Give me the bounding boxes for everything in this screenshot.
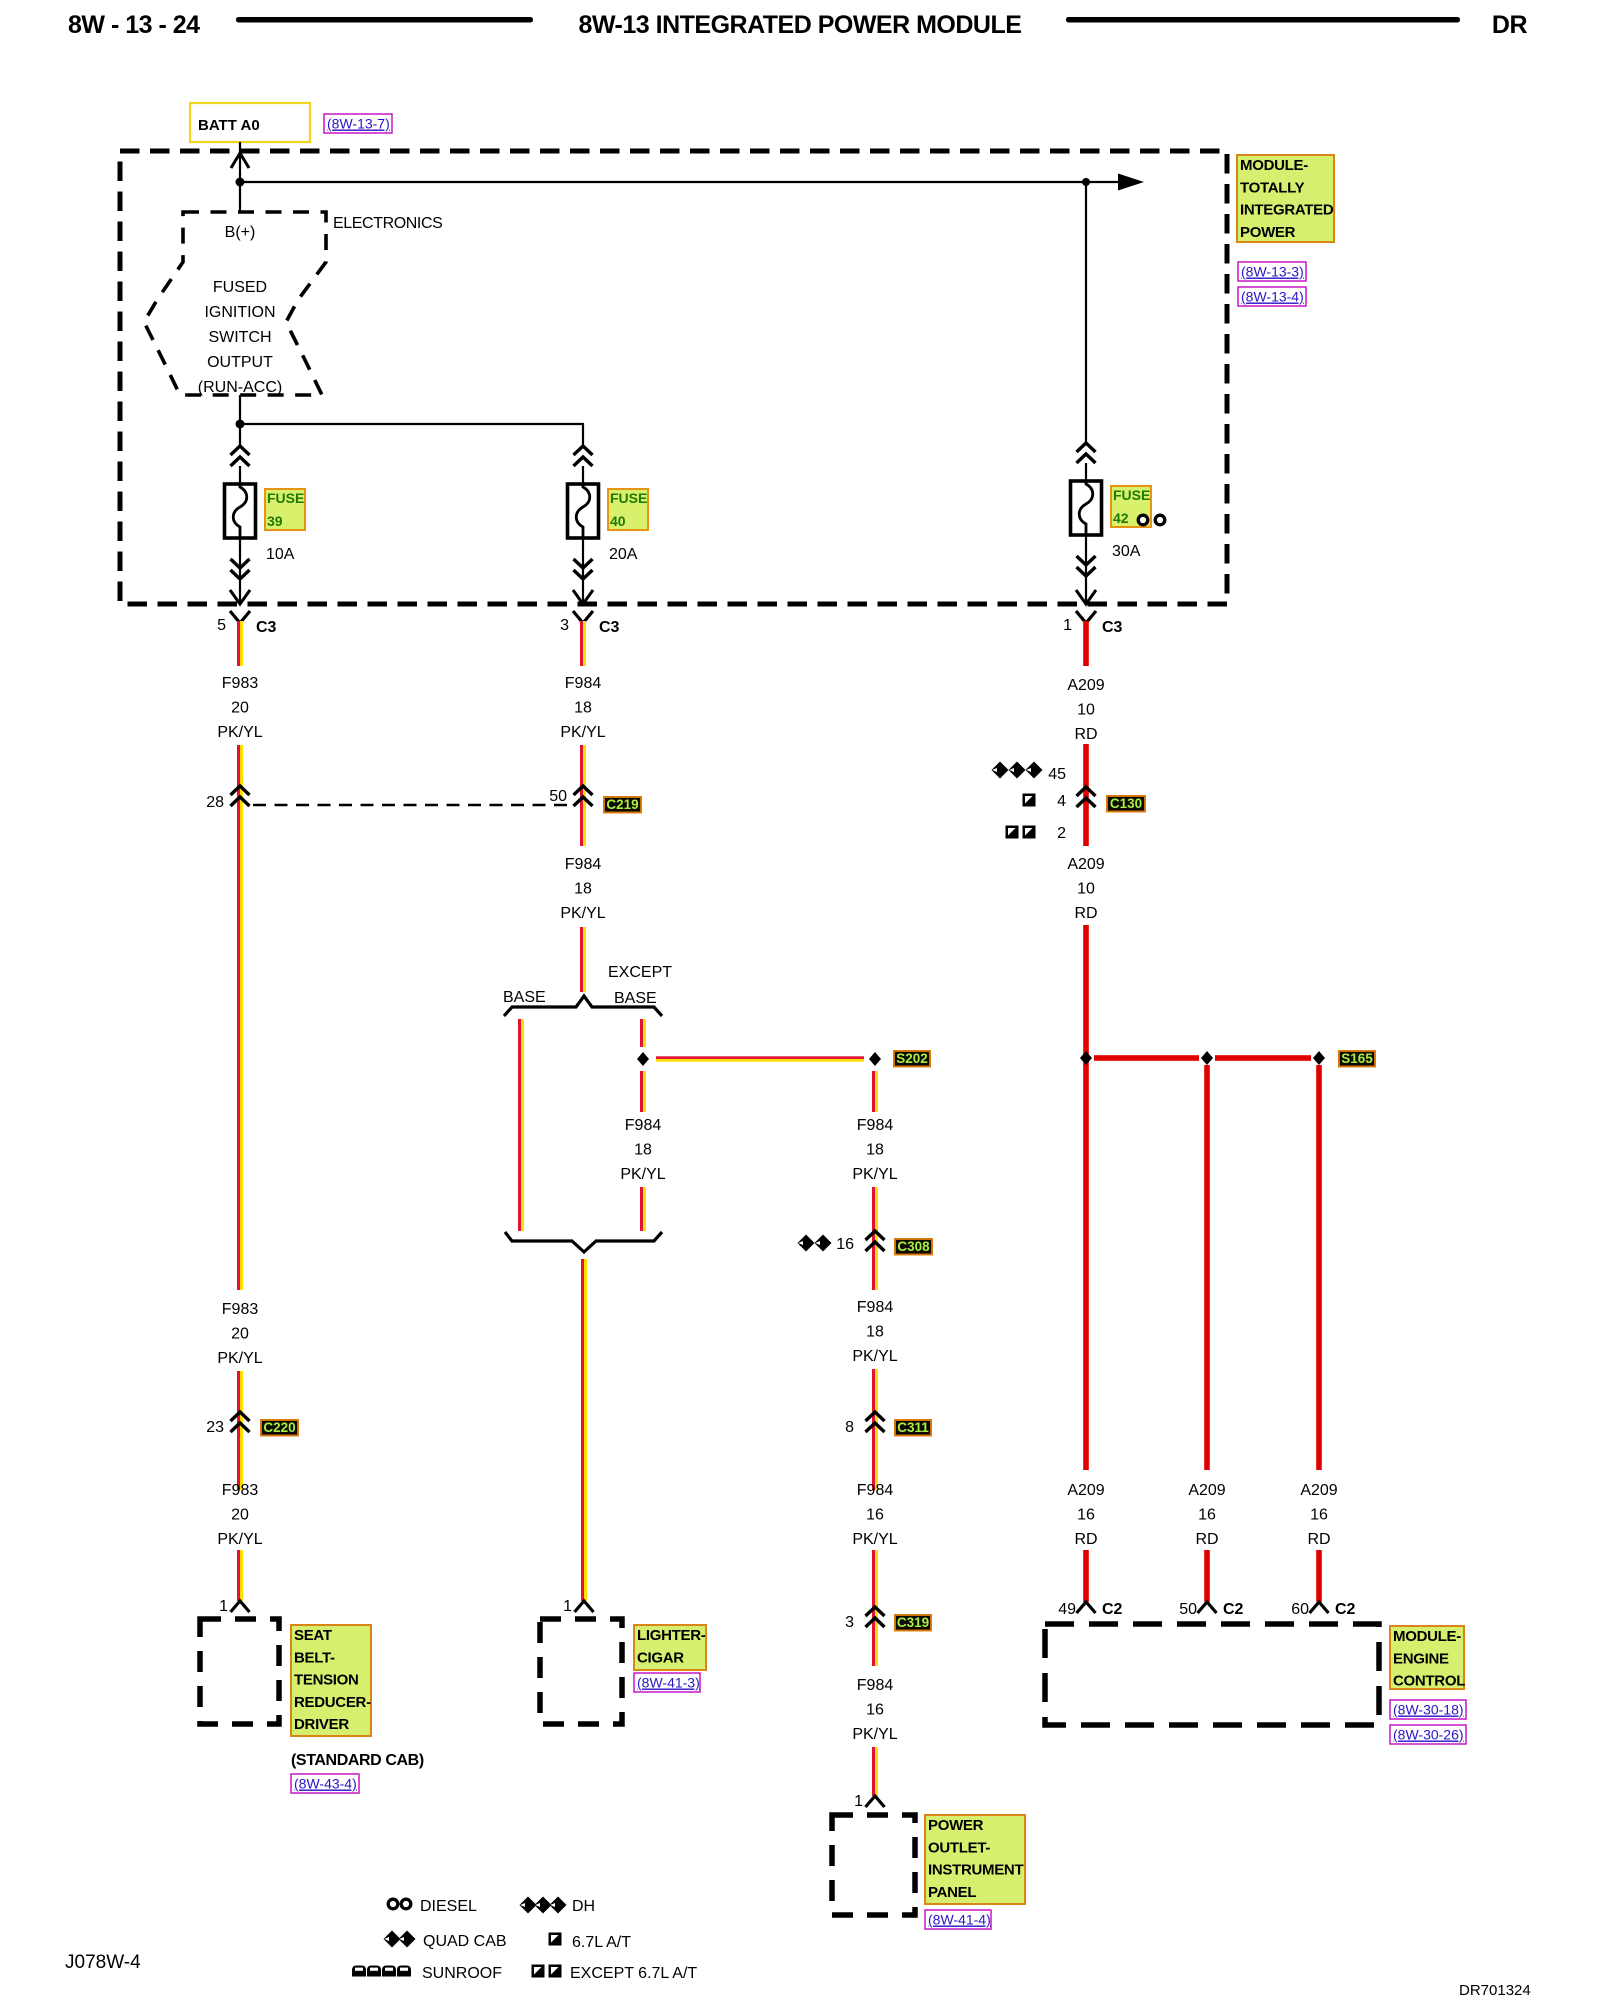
merge brace — [505, 1232, 662, 1252]
svg-text:50: 50 — [1179, 1601, 1197, 1618]
svg-text:PK/YL: PK/YL — [560, 724, 605, 741]
svg-text:8W - 13 - 24: 8W - 13 - 24 — [68, 11, 200, 39]
svg-text:INTEGRATED: INTEGRATED — [1240, 202, 1334, 219]
svg-text:F983: F983 — [222, 675, 259, 692]
svg-text:8: 8 — [845, 1419, 854, 1436]
wire to C2 pin60 — [1316, 1550, 1322, 1602]
link 8W-41-3 — [634, 1673, 700, 1692]
wire to C319 — [872, 1550, 875, 1627]
svg-text:C2: C2 — [1102, 1601, 1123, 1618]
svg-text:RD: RD — [1074, 726, 1097, 743]
svg-text:REDUCER-: REDUCER- — [294, 1694, 371, 1711]
svg-text:(8W-13-4): (8W-13-4) — [1241, 289, 1304, 305]
arrow into TIPM connector 42 — [1076, 590, 1096, 604]
svg-text:28: 28 — [206, 794, 224, 811]
wire S165 jumper 1 — [1094, 1055, 1199, 1061]
connector chevrons above fuse 40 — [574, 446, 593, 466]
label POWER OUTLET-INSTRUMENT PANEL — [925, 1815, 1025, 1904]
diesel option circles at fuse 42 — [1138, 515, 1148, 525]
splice S202 diamond right — [869, 1052, 881, 1066]
wire S165 jumper 2 — [1215, 1055, 1311, 1061]
svg-text:18: 18 — [574, 881, 592, 898]
svg-text:F984: F984 — [857, 1117, 894, 1134]
wire F983 segment below C3 — [237, 621, 240, 666]
svg-text:20A: 20A — [609, 546, 638, 563]
wire below fuse 40 — [582, 538, 584, 602]
svg-text:DH: DH — [572, 1898, 595, 1915]
wire below C311 — [872, 1432, 875, 1490]
svg-text:(STANDARD CAB): (STANDARD CAB) — [291, 1752, 424, 1769]
svg-text:BATT A0: BATT A0 — [198, 117, 260, 134]
wire F983 segment 3 — [237, 1371, 240, 1433]
svg-text:(RUN-ACC): (RUN-ACC) — [198, 379, 282, 396]
wire A209 branch 2 — [1204, 1065, 1210, 1470]
link 8W-13-4 — [1238, 287, 1306, 306]
component Engine Control Module dashed box — [1045, 1624, 1379, 1725]
wire F984 to lighter — [581, 1259, 584, 1601]
connector C3 pin 5 — [230, 611, 250, 623]
split brace BASE / EXCEPT BASE — [504, 996, 662, 1016]
svg-text:23: 23 — [206, 1419, 224, 1436]
svg-text:42: 42 — [1113, 510, 1129, 526]
svg-text:16: 16 — [866, 1507, 884, 1524]
svg-text:OUTPUT: OUTPUT — [207, 354, 273, 371]
wire EXCEPT BASE branch lower — [640, 1071, 643, 1112]
link 8W-13-7 — [324, 114, 392, 133]
chevrons below fuse 40 — [574, 559, 593, 579]
svg-text:39: 39 — [267, 513, 283, 529]
svg-text:PK/YL: PK/YL — [217, 724, 262, 741]
svg-text:45: 45 — [1048, 766, 1066, 783]
wire below fuse 42 — [1085, 535, 1087, 602]
wire BATT feed vertical — [239, 142, 241, 212]
module Totally Integrated Power dashed outline — [120, 151, 1227, 604]
svg-text:18: 18 — [634, 1142, 652, 1159]
connector C130 — [1077, 787, 1096, 807]
svg-text:IGNITION: IGNITION — [204, 304, 275, 321]
connector pin 1 seat belt — [231, 1601, 250, 1612]
svg-text:10: 10 — [1077, 881, 1095, 898]
svg-text:C220: C220 — [263, 1420, 295, 1435]
svg-text:INSTRUMENT: INSTRUMENT — [928, 1862, 1023, 1879]
svg-text:40: 40 — [610, 513, 626, 529]
svg-text:2: 2 — [1057, 825, 1066, 842]
svg-text:MODULE-: MODULE- — [1240, 157, 1308, 174]
svg-text:RD: RD — [1074, 905, 1097, 922]
svg-text:LIGHTER-: LIGHTER- — [637, 1627, 706, 1644]
svg-text:A209: A209 — [1067, 856, 1104, 873]
wire to C308 — [872, 1187, 875, 1251]
legend except 6.7L AT symbol — [532, 1965, 545, 1978]
svg-text:MODULE-: MODULE- — [1393, 1628, 1461, 1645]
connector C220 pin 23 — [231, 1412, 250, 1432]
label FUSE 42 — [1111, 486, 1151, 527]
svg-text:18: 18 — [574, 700, 592, 717]
svg-text:PK/YL: PK/YL — [217, 1531, 262, 1548]
svg-text:SEAT: SEAT — [294, 1627, 332, 1644]
svg-text:10A: 10A — [266, 546, 295, 563]
svg-text:C219: C219 — [606, 797, 638, 812]
svg-text:ENGINE: ENGINE — [1393, 1650, 1449, 1667]
function FUSED IGNITION SWITCH OUTPUT hexagon dashed — [144, 212, 326, 395]
splice S202 diamond left — [637, 1052, 649, 1066]
label FUSE 40 — [608, 489, 648, 530]
svg-text:TENSION: TENSION — [294, 1672, 359, 1689]
svg-text:50: 50 — [549, 788, 567, 805]
splice S165 diamond 1 — [1080, 1051, 1092, 1065]
wire F983 segment 4 — [237, 1433, 240, 1490]
wire A209 below C3 — [1083, 621, 1089, 666]
wire A209 segment 2 — [1083, 744, 1089, 846]
wire A209 branch 3 — [1316, 1065, 1322, 1470]
svg-text:16: 16 — [1310, 1507, 1328, 1524]
svg-text:30A: 30A — [1112, 543, 1141, 560]
svg-text:C3: C3 — [256, 619, 277, 636]
svg-text:BASE: BASE — [614, 990, 657, 1007]
connector C308 pin 16 quad cab — [798, 1235, 815, 1252]
svg-text:C319: C319 — [897, 1615, 929, 1630]
svg-text:PANEL: PANEL — [928, 1884, 976, 1901]
connector C2 pin 50 — [1198, 1602, 1217, 1613]
svg-text:3: 3 — [845, 1614, 854, 1631]
svg-text:F983: F983 — [222, 1301, 259, 1318]
link 8W-41-4 — [925, 1910, 991, 1929]
connector chevrons above fuse 42 — [1077, 443, 1096, 463]
wire F984 below S202 — [872, 1071, 875, 1112]
wire F984 segment 2 — [580, 745, 583, 846]
wire BASE branch — [518, 1019, 521, 1231]
junction dot B — [1082, 178, 1090, 186]
wire to C2 pin49 — [1083, 1550, 1089, 1602]
svg-text:C311: C311 — [897, 1420, 929, 1435]
wire branch horizontal to fuse 40 — [240, 423, 583, 425]
svg-text:ELECTRONICS: ELECTRONICS — [333, 215, 442, 232]
arrow into TIPM connector 39 — [230, 590, 250, 604]
svg-text:C2: C2 — [1335, 1601, 1356, 1618]
wire into fuse 42 — [1085, 463, 1087, 481]
label MODULE-TOTALLY INTEGRATED POWER — [1237, 155, 1334, 242]
svg-text:10: 10 — [1077, 702, 1095, 719]
arrow up into BATT — [231, 153, 249, 168]
wire into fuse 40 — [582, 466, 584, 484]
connector chevrons above fuse 39 — [231, 446, 250, 466]
svg-text:49: 49 — [1058, 1601, 1076, 1618]
svg-text:A209: A209 — [1067, 677, 1104, 694]
svg-text:FUSED: FUSED — [213, 279, 267, 296]
svg-text:POWER: POWER — [1240, 224, 1296, 241]
svg-text:A209: A209 — [1300, 1482, 1337, 1499]
svg-text:(8W-13-7): (8W-13-7) — [327, 116, 390, 132]
junction dot C — [236, 420, 245, 429]
label LIGHTER-CIGAR — [634, 1625, 706, 1670]
component Power Outlet dashed box — [832, 1815, 915, 1915]
svg-text:C308: C308 — [897, 1239, 930, 1254]
svg-text:PK/YL: PK/YL — [852, 1348, 897, 1365]
svg-text:PK/YL: PK/YL — [852, 1166, 897, 1183]
connector pin 1 lighter — [575, 1601, 594, 1612]
junction dot A — [236, 178, 245, 187]
svg-text:DR: DR — [1492, 11, 1528, 39]
svg-text:DIESEL: DIESEL — [420, 1898, 477, 1915]
svg-text:5: 5 — [217, 617, 226, 634]
wire drop to fuse 42 — [1085, 182, 1087, 444]
svg-text:1: 1 — [563, 1598, 572, 1615]
svg-text:RD: RD — [1195, 1531, 1218, 1548]
svg-text:PK/YL: PK/YL — [852, 1531, 897, 1548]
svg-text:QUAD CAB: QUAD CAB — [423, 1933, 507, 1950]
svg-text:POWER: POWER — [928, 1817, 984, 1834]
chevrons below fuse 39 — [231, 559, 250, 579]
svg-text:16: 16 — [1198, 1507, 1216, 1524]
svg-text:OUTLET-: OUTLET- — [928, 1839, 990, 1856]
option DH diamonds pin 45 — [992, 762, 1009, 779]
wire F983 long segment — [237, 745, 240, 1290]
wire EXCEPT BASE branch upper — [640, 1019, 643, 1047]
svg-text:(8W-30-18): (8W-30-18) — [1393, 1702, 1464, 1718]
svg-text:FUSE: FUSE — [1113, 487, 1150, 503]
wire to C2 pin50 — [1204, 1550, 1210, 1602]
wire F984 below C3 — [580, 621, 583, 666]
svg-text:BELT-: BELT- — [294, 1649, 335, 1666]
label FUSE 39 — [265, 489, 305, 530]
connector C3 pin 3 — [573, 611, 593, 623]
svg-text:SWITCH: SWITCH — [208, 329, 271, 346]
wire to C311 — [872, 1369, 875, 1432]
svg-text:6.7L A/T: 6.7L A/T — [572, 1934, 631, 1951]
node BATT A0 box — [190, 103, 310, 142]
svg-text:S165: S165 — [1341, 1051, 1373, 1066]
svg-text:C130: C130 — [1110, 796, 1142, 811]
svg-text:CONTROL: CONTROL — [1393, 1673, 1465, 1690]
svg-text:C3: C3 — [599, 619, 620, 636]
svg-text:F984: F984 — [857, 1299, 894, 1316]
splice S165 diamond 3 — [1313, 1051, 1325, 1065]
svg-text:PK/YL: PK/YL — [852, 1726, 897, 1743]
legend 6.7L AT symbol — [549, 1933, 562, 1946]
svg-text:F984: F984 — [565, 856, 602, 873]
legend quad cab symbol — [384, 1931, 401, 1948]
connector C219 right half pin 50 — [574, 786, 593, 806]
connector C319 pin 3 — [866, 1607, 885, 1627]
fuse F39 body — [225, 484, 256, 538]
connector C2 pin 60 — [1310, 1602, 1329, 1613]
svg-text:1: 1 — [854, 1793, 863, 1810]
wire F984 segment 3 — [580, 927, 583, 992]
svg-text:16: 16 — [1077, 1507, 1095, 1524]
svg-text:F984: F984 — [857, 1482, 894, 1499]
svg-text:PK/YL: PK/YL — [217, 1350, 262, 1367]
header rule left — [236, 17, 533, 23]
svg-text:F984: F984 — [857, 1677, 894, 1694]
legend sunroof symbol — [352, 1966, 366, 1977]
label MODULE-ENGINE CONTROL — [1390, 1626, 1464, 1689]
splice S165 diamond 2 — [1201, 1051, 1213, 1065]
link 8W-43-4 — [291, 1774, 359, 1793]
connector C2 pin 49 — [1077, 1602, 1096, 1613]
svg-text:FUSE: FUSE — [267, 490, 304, 506]
component Lighter-Cigar dashed box — [540, 1619, 622, 1724]
header rule right — [1066, 17, 1460, 23]
svg-text:EXCEPT: EXCEPT — [608, 964, 672, 981]
legend diesel symbol — [388, 1899, 398, 1909]
wire A209 long segment — [1083, 925, 1089, 1470]
link 8W-30-18 — [1390, 1700, 1466, 1719]
svg-text:(8W-43-4): (8W-43-4) — [294, 1776, 357, 1792]
svg-text:20: 20 — [231, 1326, 249, 1343]
wire below C308 — [872, 1251, 875, 1290]
connector pin 1 power outlet — [866, 1796, 885, 1807]
svg-text:16: 16 — [866, 1702, 884, 1719]
legend DH symbol — [520, 1897, 537, 1914]
connector C3 pin 1 — [1076, 611, 1096, 623]
svg-text:A209: A209 — [1067, 1482, 1104, 1499]
svg-text:DR701324: DR701324 — [1459, 1982, 1531, 1999]
svg-text:BASE: BASE — [503, 989, 546, 1006]
connector C219 dashed link line — [253, 804, 569, 806]
wire splice jumper horizontal — [656, 1056, 864, 1059]
svg-text:S202: S202 — [896, 1051, 928, 1066]
fuse F40 body — [568, 484, 599, 538]
svg-text:1: 1 — [1063, 617, 1072, 634]
svg-text:60: 60 — [1291, 1601, 1309, 1618]
link 8W-30-26 — [1390, 1725, 1466, 1744]
svg-text:PK/YL: PK/YL — [560, 905, 605, 922]
link 8W-13-3 — [1238, 262, 1306, 281]
svg-text:J078W-4: J078W-4 — [65, 1952, 141, 1973]
wire below C319 — [872, 1627, 875, 1666]
svg-text:RD: RD — [1074, 1531, 1097, 1548]
svg-text:1: 1 — [219, 1598, 228, 1615]
svg-text:F984: F984 — [625, 1117, 662, 1134]
wire hexagon to junction — [239, 395, 241, 424]
wire bus horizontal to fuse 42 — [240, 181, 1119, 183]
svg-text:PK/YL: PK/YL — [620, 1166, 665, 1183]
svg-text:A209: A209 — [1188, 1482, 1225, 1499]
connector C311 pin 8 — [866, 1412, 885, 1432]
component Seat Belt Tension Reducer dashed box — [200, 1619, 279, 1724]
svg-text:18: 18 — [866, 1142, 884, 1159]
connector C219 left half pin 28 — [231, 786, 250, 806]
svg-text:C2: C2 — [1223, 1601, 1244, 1618]
svg-text:SUNROOF: SUNROOF — [422, 1965, 502, 1982]
svg-text:DRIVER: DRIVER — [294, 1716, 349, 1733]
wire F983 segment 5 — [237, 1550, 240, 1601]
arrow into TIPM connector 40 — [573, 590, 593, 604]
svg-text:8W-13 INTEGRATED POWER MODULE: 8W-13 INTEGRATED POWER MODULE — [579, 11, 1022, 39]
svg-text:16: 16 — [836, 1236, 854, 1253]
wire into fuse 39 — [239, 466, 241, 484]
svg-text:F983: F983 — [222, 1482, 259, 1499]
option except 6.7LAT squares pin 2 — [1006, 826, 1019, 839]
svg-text:F984: F984 — [565, 675, 602, 692]
svg-text:(8W-13-3): (8W-13-3) — [1241, 264, 1304, 280]
svg-text:EXCEPT 6.7L A/T: EXCEPT 6.7L A/T — [570, 1965, 697, 1982]
arrow right end of bus — [1118, 174, 1144, 191]
svg-text:18: 18 — [866, 1324, 884, 1341]
svg-text:C3: C3 — [1102, 619, 1123, 636]
option 6.7LAT square pin 4 — [1023, 794, 1036, 807]
svg-text:20: 20 — [231, 700, 249, 717]
wire below fuse 39 — [239, 538, 241, 602]
svg-text:CIGAR: CIGAR — [637, 1649, 684, 1666]
svg-text:(8W-41-3): (8W-41-3) — [637, 1675, 700, 1691]
chevrons below fuse 42 — [1077, 556, 1096, 576]
svg-text:20: 20 — [231, 1507, 249, 1524]
svg-text:4: 4 — [1057, 793, 1066, 810]
svg-text:(8W-41-4): (8W-41-4) — [928, 1912, 991, 1928]
svg-text:FUSE: FUSE — [610, 490, 647, 506]
fuse F42 body — [1071, 481, 1102, 535]
svg-text:B(+): B(+) — [225, 224, 256, 241]
svg-text:RD: RD — [1307, 1531, 1330, 1548]
svg-text:(8W-30-26): (8W-30-26) — [1393, 1727, 1464, 1743]
svg-text:TOTALLY: TOTALLY — [1240, 179, 1305, 196]
label SEAT BELT-TENSION REDUCER-DRIVER — [291, 1625, 371, 1736]
svg-text:3: 3 — [560, 617, 569, 634]
wire to power outlet — [872, 1747, 875, 1796]
